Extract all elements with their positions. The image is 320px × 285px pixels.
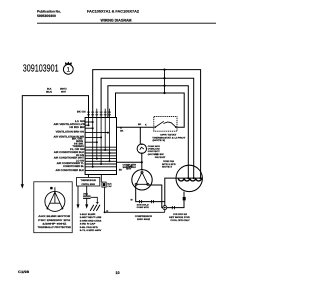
svg-text:(WHT): (WHT) [60, 87, 67, 90]
therm bulb box [77, 177, 100, 186]
svg-text:AUX BLWR MOTOR: AUX BLWR MOTOR [38, 215, 70, 218]
svg-text:MTR 3 SPD: MTR 3 SPD [162, 163, 176, 166]
wire: switch bottom to therm bulb [88, 175, 90, 178]
svg-text:WHT: WHT [61, 90, 67, 93]
fan motor windings [178, 178, 201, 181]
svg-text:1: 1 [67, 67, 71, 74]
compressor motor [132, 170, 152, 190]
wire: overload to compressor [141, 153, 143, 169]
svg-text:HI RD BK: HI RD BK [69, 126, 85, 129]
svg-text:BLK: BLK [107, 183, 112, 186]
svg-text:RD BK: RD BK [155, 153, 165, 156]
wire: switch to cap terminal [100, 175, 102, 183]
matrix junction dots [88, 121, 111, 168]
svg-text:PSC 208/230V 1PH: PSC 208/230V 1PH [38, 219, 70, 222]
svg-text:CONDITIONER BL: CONDITIONER BL [63, 165, 84, 168]
svg-text:R: R [106, 210, 108, 213]
svg-text:COOL OPR ONLY: COOL OPR ONLY [170, 219, 190, 222]
switch vertical bus 6 [109, 109, 111, 162]
svg-text:GN WHT: GN WHT [155, 156, 166, 159]
svg-text:(BLK): (BLK) [46, 90, 52, 93]
svg-text:THERMALLY PROTECTED: THERMALLY PROTECTED [38, 226, 72, 229]
svg-text:OPR TSTAT: OPR TSTAT [160, 133, 177, 136]
compressor winding triangle [136, 172, 148, 184]
svg-text:CNTRL 9000: CNTRL 9000 [81, 183, 95, 186]
junction connector [163, 206, 167, 210]
thermostat terminal dots [154, 126, 156, 128]
svg-text:BLK: BLK [47, 87, 52, 90]
run capacitor branch [86, 186, 88, 196]
svg-text:309103901: 309103901 [23, 63, 59, 74]
blower motor circle [45, 191, 65, 211]
blower feed arrow 2 [86, 198, 88, 205]
svg-text:FAC105X7A1 & FAC105X7A2: FAC105X7A1 & FAC105X7A2 [87, 9, 139, 13]
wire loop 4 (thermostat feed) [116, 93, 185, 127]
wire loop 2 (fan MED) [101, 78, 194, 178]
wire: fan bar to junction [165, 178, 177, 206]
switch vertical bus 3 [96, 109, 98, 159]
blower top lead [54, 187, 56, 203]
svg-text:4TM OVLD: 4TM OVLD [137, 204, 150, 207]
wire: junction to fan common [167, 200, 184, 207]
node: compressor feed tee [141, 161, 143, 163]
svg-text:6-YL 4 MFD 440V: 6-YL 4 MFD 440V [80, 229, 102, 232]
thermostat contact run [163, 122, 176, 127]
switch vertical bus 2 [92, 118, 94, 167]
thermostat blade [155, 121, 164, 127]
revision marker circled 1 [63, 62, 73, 75]
svg-text:PROTECT: PROTECT [148, 150, 161, 153]
svg-text:NOTE 5: NOTE 5 [162, 165, 173, 168]
legend column [80, 213, 102, 232]
switch matrix rows [85, 122, 116, 167]
svg-text:OVERLOAD: OVERLOAD [148, 148, 161, 151]
svg-text:SET MODE FOR: SET MODE FOR [169, 216, 190, 219]
overload labels [148, 145, 161, 156]
header rule [37, 22, 216, 24]
svg-text:COMP MTR: COMP MTR [148, 145, 161, 148]
svg-text:COMP: COMP [126, 165, 133, 168]
svg-text:1/20HP 60HZ: 1/20HP 60HZ [42, 222, 67, 225]
thermostat box [154, 117, 177, 132]
svg-text:COND FAN: COND FAN [163, 160, 174, 163]
svg-text:FOR OPRC SW: FOR OPRC SW [173, 213, 188, 216]
switch vertical bus 4 [100, 118, 102, 165]
svg-text:THERM BULB: THERM BULB [81, 179, 97, 182]
svg-text:BK: BK [120, 129, 124, 132]
switch box inner bottom row [85, 169, 116, 171]
ground branch [91, 197, 98, 204]
svg-text:COMPRESSOR: COMPRESSOR [135, 215, 153, 218]
ground symbol [90, 205, 100, 211]
svg-text:BK GN: BK GN [77, 110, 86, 113]
wire: compressor right terminal [148, 185, 163, 208]
svg-text:COMP MTR: COMP MTR [137, 206, 150, 209]
wire: cap terminal down and right [105, 187, 165, 212]
wire: compressor left terminal down [136, 185, 165, 201]
blower windings A shape [47, 192, 55, 208]
connector ticks on verticals [87, 112, 111, 115]
switch vertical bus 1 [88, 118, 90, 126]
svg-text:2-WHT NEUT LINE: 2-WHT NEUT LINE [80, 216, 102, 219]
fan common terminal square [183, 197, 186, 201]
wire: overload drop [139, 127, 141, 144]
svg-text:4-RD R CAP: 4-RD R CAP [80, 223, 96, 226]
svg-text:BK: BK [138, 123, 142, 126]
capacitor terminal square [102, 182, 106, 187]
blower motor box [34, 182, 72, 233]
wire loop 3 (fan LO) [108, 86, 188, 178]
overload protector [137, 144, 146, 153]
svg-text:THERMOSTAT & LI PROT: THERMOSTAT & LI PROT [152, 136, 186, 139]
connector ticks on compressor wire [140, 200, 154, 203]
svg-text:AIR CONDITIONER BLK: AIR CONDITIONER BLK [56, 169, 85, 172]
arrowhead: power cord plug [21, 184, 24, 188]
svg-text:3-GRN GND CHAS: 3-GRN GND CHAS [80, 219, 102, 222]
svg-text:C1/98: C1/98 [18, 270, 29, 274]
junction dots on jumper [163, 69, 165, 71]
fan motor terminal bar [176, 177, 202, 179]
svg-text:230V 60HZ: 230V 60HZ [137, 218, 151, 221]
svg-text:10: 10 [115, 271, 119, 275]
svg-text:VENTILATION BRN GN: VENTILATION BRN GN [56, 131, 84, 134]
selector switch box [85, 118, 116, 175]
wire: thermostat feed from switch [117, 126, 154, 128]
svg-text:1-BLK BLWR: 1-BLK BLWR [80, 213, 96, 216]
wire: switch to compressor node [117, 161, 142, 163]
switch vertical bus 5 [104, 109, 106, 150]
condenser fan motor [176, 165, 202, 191]
terminal labels column [54, 110, 86, 171]
wire: power cord L1 corner [22, 96, 88, 187]
svg-text:(NOTE 3): (NOTE 3) [153, 139, 166, 142]
svg-text:(RD): (RD) [83, 192, 88, 195]
svg-text:Publication No.: Publication No. [37, 10, 61, 14]
svg-text:WIRING DIAGRAM: WIRING DIAGRAM [101, 18, 132, 22]
svg-text:5-BL FAN SPD: 5-BL FAN SPD [80, 226, 98, 229]
svg-text:MTR: MTR [126, 168, 131, 171]
svg-text:CAP: CAP [107, 185, 112, 188]
svg-text:5995309300: 5995309300 [37, 14, 56, 18]
wire: jumper x=164.5 [164, 70, 166, 93]
blower feed arrow 1 [77, 186, 79, 205]
wire loop 1 (outermost, fan HI) [93, 70, 201, 179]
